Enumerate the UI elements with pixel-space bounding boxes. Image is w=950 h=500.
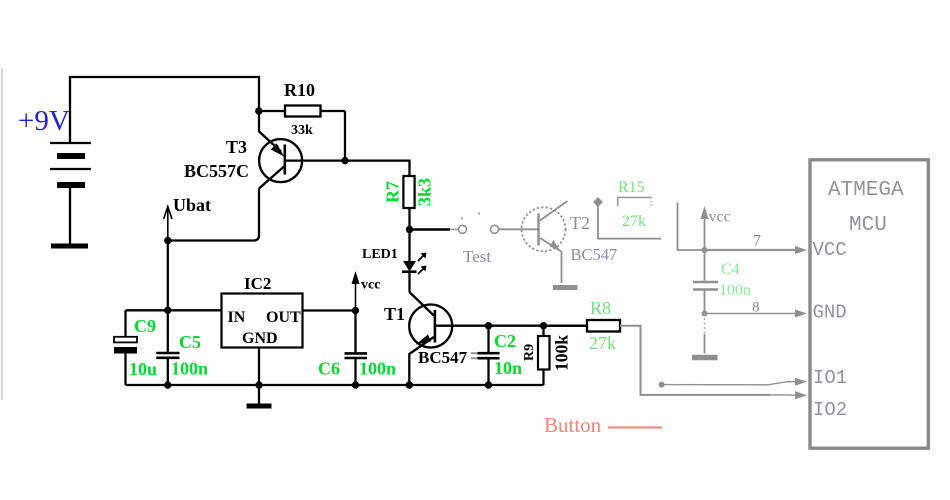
- node LED/switch junction: [406, 226, 413, 233]
- wire R10 right down to base rail: [344, 111, 346, 161]
- node R9 top junction: [540, 322, 547, 329]
- svg-text:10u: 10u: [129, 359, 157, 379]
- svg-text:T2: T2: [570, 213, 590, 233]
- MCU box: [810, 160, 928, 448]
- svg-text:27k: 27k: [589, 333, 616, 353]
- arrow into IO1: [795, 378, 807, 386]
- wire left branch down to C9: [124, 310, 126, 337]
- wire T1 emitter to rail: [408, 353, 410, 385]
- switch Test terminal 1: [459, 225, 467, 233]
- vcc arrow (gray): [704, 212, 706, 250]
- svg-text:100n: 100n: [719, 282, 751, 299]
- capacitor C9: [114, 337, 137, 343]
- svg-text:3k3: 3k3: [415, 178, 435, 206]
- resistor R7: [403, 176, 414, 208]
- wire to test switch: [410, 228, 451, 230]
- wire top rail: [70, 77, 259, 143]
- node base of T3 / R10 left junction: [255, 107, 262, 114]
- svg-text:vcc: vcc: [709, 209, 731, 226]
- node Ubat junction: [164, 237, 171, 244]
- ground (battery): [51, 244, 88, 249]
- svg-text:R9: R9: [522, 344, 537, 361]
- svg-text:27k: 27k: [622, 213, 646, 230]
- svg-text:ATMEGA: ATMEGA: [828, 179, 904, 202]
- svg-text:Ubat: Ubat: [173, 195, 211, 215]
- svg-text:100n: 100n: [359, 359, 396, 379]
- svg-text:Button: Button: [544, 413, 602, 437]
- node IO1 wire start: [659, 382, 665, 388]
- svg-text:vcc: vcc: [361, 278, 380, 293]
- wire T3 base to R7: [286, 161, 410, 177]
- resistor R10: [259, 110, 285, 112]
- svg-text:OUT: OUT: [266, 309, 301, 326]
- svg-text:GND: GND: [813, 302, 847, 324]
- capacitor C2 ghost stubs: [471, 352, 478, 354]
- svg-text:100n: 100n: [171, 359, 208, 379]
- node R15 top (diamond): [593, 197, 603, 207]
- node C2 top junction: [485, 322, 492, 329]
- svg-text:Test: Test: [463, 247, 491, 266]
- svg-text:LED1: LED1: [362, 247, 398, 262]
- svg-text:BC547: BC547: [418, 348, 468, 367]
- svg-text:33k: 33k: [291, 123, 313, 138]
- resistor R15 (ghost partial): [618, 197, 652, 206]
- LED light arrows: [418, 255, 425, 275]
- resistor R9: [542, 326, 544, 336]
- svg-text:8: 8: [752, 300, 760, 316]
- ground (C4): [692, 355, 718, 361]
- svg-text:R15: R15: [618, 179, 645, 196]
- node OUT/vcc junction: [352, 307, 359, 314]
- wire C4 to ground: [704, 314, 706, 335]
- svg-text:GND: GND: [242, 330, 278, 347]
- svg-text:R10: R10: [284, 80, 315, 100]
- wire switch to T2 base: [499, 228, 539, 230]
- svg-text:100k: 100k: [552, 335, 572, 371]
- switch Test terminal 2: [491, 225, 499, 233]
- node vcc/C4 junction: [702, 247, 708, 253]
- transistor T3: [184, 132, 302, 189]
- svg-text:C2: C2: [494, 331, 516, 351]
- wire VCC to MCU pin 7: [705, 249, 797, 251]
- capacitor C4: [704, 250, 706, 281]
- svg-text:IO1: IO1: [813, 367, 847, 389]
- resistor R8: [544, 325, 588, 327]
- svg-text:C4: C4: [721, 261, 740, 278]
- svg-text:R7: R7: [383, 181, 403, 203]
- svg-text:R8: R8: [590, 298, 611, 318]
- wire IN row: [126, 309, 222, 311]
- svg-text:IO2: IO2: [813, 399, 847, 421]
- svg-text:T1: T1: [384, 304, 405, 324]
- wire C4 branch top: [678, 203, 705, 251]
- wire R15 branch: [598, 202, 661, 239]
- svg-text:+9V: +9V: [18, 105, 70, 137]
- svg-text:C5: C5: [179, 332, 201, 352]
- wire T3 collector down and left to Ubat node: [168, 189, 259, 241]
- switch actuator dots: [461, 217, 463, 219]
- wire R8 to IO2: [620, 326, 770, 395]
- capacitor C5: [167, 310, 169, 352]
- wire T1 base row: [436, 325, 587, 327]
- node C4/GND junction: [702, 311, 708, 317]
- svg-text:MCU: MCU: [849, 214, 887, 237]
- IC2 box: [222, 294, 303, 348]
- Ubat arrow: [167, 209, 169, 241]
- LED1: [408, 230, 410, 262]
- svg-text:10n: 10n: [494, 358, 522, 378]
- battery B1: [50, 143, 91, 185]
- capacitor C2: [487, 326, 489, 352]
- svg-text:T3: T3: [226, 137, 247, 157]
- IC2 GND pin wire: [258, 348, 260, 386]
- wire Ubat node down to IN row: [167, 241, 169, 311]
- svg-text:BC557C: BC557C: [184, 161, 249, 181]
- wire battery to ground: [69, 188, 71, 244]
- transistor T1: [384, 292, 468, 367]
- ground (T2): [553, 285, 578, 290]
- svg-text:C9: C9: [134, 316, 156, 336]
- transistor T2 (ghost): [522, 201, 568, 252]
- wire OUT row: [303, 309, 356, 311]
- svg-text:C6: C6: [318, 359, 340, 379]
- svg-text:BC547: BC547: [571, 245, 618, 264]
- arrow into IO2: [795, 391, 807, 399]
- svg-text:7: 7: [753, 233, 761, 250]
- node IN/Ubat junction: [164, 307, 171, 314]
- wire R7 to LED node: [408, 209, 410, 230]
- ground (IC2): [258, 385, 260, 404]
- bottom rail: [126, 384, 544, 386]
- Button line: [608, 427, 662, 429]
- vcc arrow (black): [355, 276, 357, 311]
- wire IO1: [662, 382, 796, 385]
- capacitor C6: [354, 311, 356, 353]
- svg-text:IN: IN: [228, 309, 246, 326]
- wire GND to MCU pin 8: [705, 313, 797, 315]
- node R10/base junction: [341, 157, 348, 164]
- svg-text:IC2: IC2: [244, 274, 271, 293]
- svg-text:VCC: VCC: [813, 239, 847, 261]
- rail junction dots: [164, 381, 171, 388]
- scan edge artifact line: [1, 68, 3, 400]
